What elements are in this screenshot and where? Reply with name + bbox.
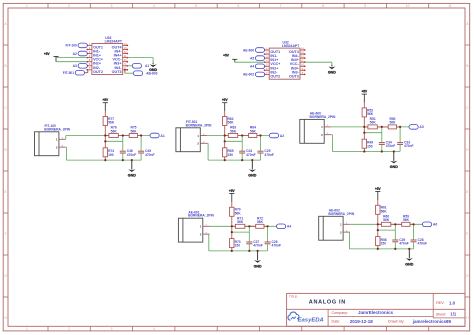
svg-text:1: 1 [26,4,28,8]
svg-text:2019-12-18: 2019-12-18 [350,319,374,324]
capacitor C24 470nF [239,136,255,161]
svg-text:56K: 56K [367,112,374,116]
svg-text:ANALOG IN: ANALOG IN [309,300,346,306]
svg-text:9: 9 [364,4,366,8]
svg-text:Date:: Date: [332,320,341,324]
svg-text:E: E [466,190,468,194]
svg-text:A2: A2 [280,134,284,138]
svg-text:F: F [5,232,7,236]
svg-text:56K: 56K [370,121,377,125]
wire U33 VCC- to GND [127,57,153,59]
svg-text:+5V: +5V [229,189,236,193]
svg-text:56K: 56K [237,220,244,224]
svg-text:56K: 56K [228,121,235,125]
svg-text:FIT-100: FIT-100 [66,44,78,48]
svg-text:1.0: 1.0 [449,300,456,305]
svg-text:D: D [466,148,469,152]
svg-text:BORNERA_2PIN: BORNERA_2PIN [44,127,70,131]
resistor R59 56K (series) [395,215,414,227]
svg-text:A3: A3 [73,64,77,68]
net flag A2 (block output) [269,133,278,138]
svg-text:BORNERA_2PIN: BORNERA_2PIN [188,214,214,218]
svg-text:470nF: 470nF [246,153,256,157]
wire pin2 to ground rail [65,146,68,148]
svg-text:4: 4 [153,4,155,8]
svg-text:TITLE:: TITLE: [289,295,298,299]
capacitor C46 470nF [120,136,136,161]
ground (AE-601 block) [254,251,262,268]
resistor R60 56K (series) [378,215,396,227]
net flag A3 (U33 pin 6) [78,64,87,69]
ground rail wire [209,250,268,252]
EasyEDA logo [288,312,324,323]
svg-text:GND: GND [248,174,256,178]
svg-text:1: 1 [26,327,28,331]
svg-text:5: 5 [195,4,197,8]
svg-text:OUT3: OUT3 [289,74,299,78]
junction dots [231,225,269,252]
svg-text:AB-603: AB-603 [146,72,158,76]
svg-text:A1: A1 [145,64,149,68]
capacitor C45 470nF [138,136,154,161]
svg-text:AE-600: AE-600 [243,48,254,52]
net flag AE-602 (U32 pin 7) [255,72,264,77]
wire +5V to U33 IN2+ [56,61,88,63]
svg-text:56K: 56K [250,129,257,133]
capacitor C29 470nF [392,224,408,249]
svg-text:470nF: 470nF [418,242,428,246]
svg-text:OUT2: OUT2 [93,70,103,74]
junction dots [104,134,142,161]
op-amp U32 (LM324APT) [264,41,306,80]
svg-text:150: 150 [235,244,241,248]
svg-text:GND: GND [390,165,398,169]
connector AE-602 (BORNERA_2PIN) [319,208,355,240]
resistor R73 150 (vertical) [230,226,241,251]
svg-text:jamrelectronics89: jamrelectronics89 [412,319,452,324]
svg-text:AE-602: AE-602 [243,73,254,77]
svg-text:56K: 56K [111,129,118,133]
net flag A4 (U32 pin 5) [255,64,264,69]
ground (AE-602 block) [405,249,413,266]
ground rail wire [349,248,413,250]
resistor R65 150 (vertical) [223,136,234,161]
resistor R50 56K (series) [382,117,401,129]
wire pin1 to main node [350,223,378,225]
svg-text:470nF: 470nF [145,153,155,157]
ground rail wire [66,159,141,161]
svg-text:470nF: 470nF [127,153,137,157]
svg-text:4: 4 [153,327,155,331]
resistor R77 56K (vertical) [103,111,115,135]
resistor R64 56K (series) [242,126,261,138]
wire +5V to U33 VCC+ [56,57,88,59]
connector FIT-501 (BORNERA_2PIN) [176,120,212,152]
resistor R75 56K (series) [123,126,142,138]
svg-text:B: B [466,64,468,68]
wire node to first capacitor [364,132,382,134]
main node wire [225,135,270,137]
wire pin1 to main node [210,225,232,227]
net flag AB-603 (U33 pin 8) [124,70,126,73]
svg-text:6: 6 [238,4,240,8]
svg-text:OUT3: OUT3 [112,70,122,74]
resistor R63 56K (series) [225,126,243,138]
ground rail wire [208,159,260,161]
svg-text:LM324APT: LM324APT [282,44,300,48]
svg-text:2: 2 [68,327,70,331]
wire node to first capacitor [378,229,396,231]
resistor R52 56K (vertical) [362,103,374,127]
svg-text:Company:: Company: [332,311,348,315]
svg-text:56K: 56K [235,212,242,216]
capacitor C26 470nF [265,226,281,251]
main node wire [105,135,150,137]
svg-text:150: 150 [367,144,373,148]
wire +5V to U32 VCC+ [235,61,265,63]
net flag FIT-100 (U33 pin 1) [78,43,87,48]
svg-text:A6: A6 [433,223,437,227]
svg-text:A: A [5,22,8,26]
resistor R76 56K (series) [105,126,123,138]
wire pin1 to main node [65,138,67,140]
net flag A6 (block output) [423,222,432,227]
svg-text:C: C [466,106,469,110]
svg-text:+5V: +5V [361,90,368,94]
main node wire [378,223,423,225]
svg-text:Drawn By:: Drawn By: [388,320,405,324]
svg-text:REV:: REV: [436,301,444,305]
svg-text:10: 10 [406,4,410,8]
svg-text:470nF: 470nF [399,242,409,246]
svg-text:GND: GND [128,174,136,178]
wire node to first capacitor [232,231,250,233]
wire node to first capacitor [105,140,123,142]
svg-text:OUT2: OUT2 [270,74,280,78]
svg-text:2: 2 [68,4,70,8]
wire pin2 to ground rail [348,231,350,233]
svg-text:470nF: 470nF [386,144,396,148]
net flag AE-600 (U32 pin 1) [255,48,264,53]
ground (FIT-501 block) [248,160,256,177]
svg-text:A2: A2 [73,52,77,56]
resistor R61 56K (vertical) [376,200,388,224]
connector AE-601 (BORNERA_2PIN) [178,210,214,242]
svg-text:H: H [466,316,469,320]
svg-text:+5V: +5V [102,98,109,102]
capacitor C27 470nF [246,226,262,251]
resistor R51 56K (series) [364,117,382,129]
main node wire [364,126,409,128]
svg-text:E: E [5,190,7,194]
svg-text:BORNERA_2PIN: BORNERA_2PIN [328,212,354,216]
svg-text:BORNERA_2PIN: BORNERA_2PIN [186,123,212,127]
net flag A2 (U33 pin 3) [78,51,87,56]
svg-text:G: G [466,274,469,278]
svg-text:150: 150 [108,153,114,157]
svg-text:H: H [4,316,7,320]
connector FIT-100 (BORNERA_2PIN) [35,124,71,156]
svg-text:56K: 56K [257,220,264,224]
svg-text:56K: 56K [383,218,390,222]
junction dots [377,223,415,250]
wire U32 VCC- to GND [304,61,332,63]
wire pin1 to main node [207,135,225,137]
svg-text:56K: 56K [381,210,388,214]
wire pin1 to main node [331,126,364,128]
svg-text:D: D [4,148,7,152]
svg-text:EasyEDA: EasyEDA [298,317,324,323]
ground (U33) [152,63,154,65]
svg-text:470nF: 470nF [264,153,274,157]
net flag A1 (block output) [150,133,159,138]
svg-text:56K: 56K [108,121,115,125]
connector AE-600 (BORNERA_2PIN) [300,112,336,144]
svg-text:A: A [466,22,469,26]
ground (U32) [331,65,333,67]
svg-text:56K: 56K [230,129,237,133]
svg-text:150: 150 [228,153,234,157]
net flag A4 (block output) [277,224,286,229]
svg-text:Sheet:: Sheet: [436,313,446,317]
svg-text:56K: 56K [130,129,137,133]
svg-text:+5V: +5V [223,54,230,58]
svg-text:+5V: +5V [222,98,229,102]
svg-text:11: 11 [448,4,452,8]
svg-text:7: 7 [280,4,282,8]
svg-text:GND: GND [328,70,336,74]
svg-text:JamrElectronics: JamrElectronics [358,310,394,315]
ground rail wire [332,151,400,153]
svg-text:8: 8 [322,4,324,8]
svg-text:A4: A4 [287,225,291,229]
op-amp U33 (LM324APT) [86,36,128,75]
svg-text:A4: A4 [250,65,254,69]
svg-text:GND: GND [254,264,262,268]
wire node to first capacitor [225,140,243,142]
capacitor C34 470nF [379,127,395,152]
net flag A3 (block output) [409,125,418,130]
capacitor C33 470nF [397,127,413,152]
svg-text:A3: A3 [419,125,423,129]
svg-text:A1: A1 [160,134,164,138]
resistor R49 150 (vertical) [362,127,373,152]
svg-text:3: 3 [111,4,113,8]
net flag A1 (U33 pin 9) [127,65,132,67]
junction dots [224,134,262,161]
wire U33 OUT2 jog to FIT-501 [87,70,89,73]
svg-text:150: 150 [381,242,387,246]
wire pin2 to ground rail [207,142,208,144]
capacitor C25 470nF [258,136,274,161]
svg-text:56K: 56K [403,218,410,222]
svg-text:56K: 56K [389,121,396,125]
wire pin2 to ground rail [208,233,211,235]
ground (FIT-100 block) [128,160,136,177]
resistor R71 56K (series) [232,217,250,229]
svg-text:G: G [4,274,7,278]
svg-text:A5: A5 [250,56,254,60]
junction dots [363,126,401,153]
resistor R74 150 (vertical) [103,136,114,161]
main node wire [232,225,277,227]
svg-text:F: F [466,232,468,236]
svg-text:+5V: +5V [375,187,382,191]
svg-text:LM324APT: LM324APT [105,39,123,43]
resistor R70 56K (vertical) [230,202,242,226]
svg-text:GND: GND [405,262,413,266]
svg-text:1/1: 1/1 [450,312,456,317]
svg-text:470nF: 470nF [272,244,282,248]
svg-text:FIT-501: FIT-501 [63,71,75,75]
svg-text:BORNERA_2PIN: BORNERA_2PIN [310,115,336,119]
svg-text:470nF: 470nF [404,144,414,148]
resistor R72 56K (series) [249,217,268,229]
svg-text:3: 3 [111,327,113,331]
svg-text:+5V: +5V [44,52,51,56]
net flag A5 (U32 pin 3) [255,56,264,61]
ground (AE-600 block) [390,152,398,169]
wire pin2 to ground rail [331,134,333,136]
resistor R58 150 (vertical) [376,224,387,249]
capacitor C28 470nF [411,224,427,249]
title block outline [287,293,465,326]
svg-text:B: B [5,64,7,68]
svg-text:C: C [4,106,7,110]
svg-text:470nF: 470nF [253,244,263,248]
resistor R62 56K (vertical) [223,111,235,135]
net flag FIT-501 (U33 pin 7) [75,70,84,75]
